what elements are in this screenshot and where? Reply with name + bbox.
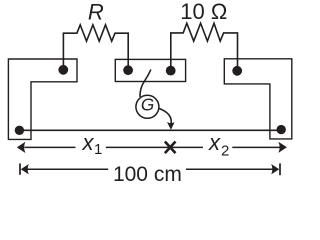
jockey contact arrowhead xyxy=(167,122,175,130)
terminal dot: right strip xyxy=(232,66,242,76)
arrowhead 100cm left xyxy=(21,164,29,174)
terminal dot: middle strip right xyxy=(166,66,176,76)
copper strip left (L-shape) xyxy=(8,59,77,139)
dimension end bar left xyxy=(19,163,21,174)
dimension line 100 cm right segment xyxy=(186,168,273,170)
terminal dot: left strip xyxy=(58,65,68,75)
dimension end bar right xyxy=(279,163,281,175)
dimension line x1 xyxy=(25,146,203,148)
svg-text:2: 2 xyxy=(221,142,229,159)
arrowhead 100cm right xyxy=(271,164,279,174)
copper strip right (L-shape) xyxy=(224,59,291,139)
dimension line 100 cm left segment xyxy=(27,168,109,170)
crossover mark x between x1 and x2 xyxy=(165,142,176,154)
galvanometer G xyxy=(136,95,159,118)
svg-text:G: G xyxy=(141,94,154,114)
svg-text:x: x xyxy=(208,130,221,155)
bridge wire AB xyxy=(19,129,281,131)
svg-text:R: R xyxy=(88,0,104,25)
terminal dot: middle strip left xyxy=(123,65,133,75)
terminal dot: bridge wire left end xyxy=(15,126,24,135)
arrowhead x1 left xyxy=(17,142,26,153)
dimension line x2 xyxy=(232,146,280,148)
svg-text:x: x xyxy=(82,130,95,155)
svg-text:10 Ω: 10 Ω xyxy=(180,0,227,24)
resistor 10 ohm (zigzag with leads) xyxy=(171,23,238,70)
svg-text:100 cm: 100 cm xyxy=(113,163,182,186)
wire: galvanometer to jockey xyxy=(159,108,172,125)
svg-text:1: 1 xyxy=(94,141,102,158)
copper strip middle xyxy=(115,59,185,81)
resistor R (zigzag with leads) xyxy=(63,25,128,70)
wire: middle strip to galvanometer xyxy=(140,70,151,97)
arrowhead x2 right xyxy=(278,142,287,153)
terminal dot: bridge wire right end xyxy=(277,125,286,134)
